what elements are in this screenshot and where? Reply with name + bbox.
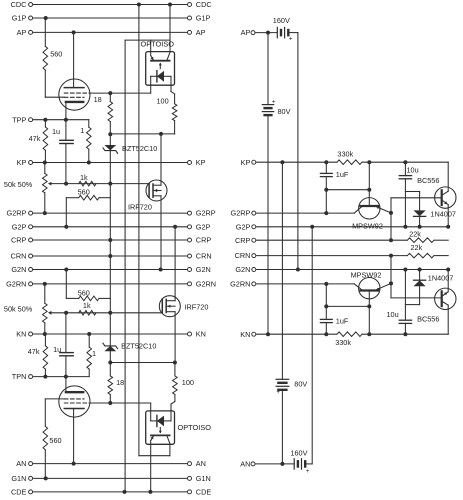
svg-text:OPTOISO: OPTOISO (178, 423, 212, 432)
svg-text:1: 1 (80, 126, 84, 135)
svg-text:G2RN: G2RN (6, 280, 26, 289)
svg-text:1: 1 (92, 349, 96, 358)
svg-text:+: + (272, 98, 276, 105)
svg-text:G1N: G1N (11, 474, 26, 483)
svg-text:KP: KP (196, 158, 206, 167)
svg-text:22k: 22k (409, 230, 421, 239)
svg-text:KP: KP (17, 158, 27, 167)
svg-text:80V: 80V (294, 380, 307, 389)
svg-text:KP: KP (241, 158, 251, 167)
svg-text:KN: KN (16, 330, 26, 339)
svg-text:+: + (276, 389, 280, 396)
svg-text:CRN: CRN (235, 251, 251, 260)
svg-text:+: + (306, 468, 310, 475)
svg-text:47k: 47k (29, 134, 41, 143)
svg-text:TPP: TPP (12, 115, 26, 124)
svg-text:AN: AN (240, 460, 250, 469)
svg-text:160V: 160V (273, 16, 290, 25)
svg-text:G2P: G2P (196, 222, 211, 231)
svg-text:330k: 330k (337, 149, 353, 158)
svg-text:G1P: G1P (12, 14, 27, 23)
svg-text:10u: 10u (407, 166, 419, 175)
svg-text:AN: AN (196, 459, 206, 468)
svg-text:160V: 160V (290, 449, 307, 458)
svg-text:1uF: 1uF (336, 170, 349, 179)
svg-text:BC556: BC556 (417, 176, 439, 185)
svg-text:50k 50%: 50k 50% (4, 180, 33, 189)
svg-text:G2RN: G2RN (196, 280, 216, 289)
svg-text:BC556: BC556 (417, 314, 439, 323)
svg-text:1k: 1k (83, 301, 91, 310)
svg-text:100: 100 (157, 96, 169, 105)
svg-text:1N4007: 1N4007 (428, 273, 454, 282)
svg-text:1uF: 1uF (336, 317, 349, 326)
svg-text:G2N: G2N (11, 265, 26, 274)
svg-text:CDC: CDC (196, 0, 212, 9)
svg-text:560: 560 (78, 289, 90, 298)
svg-text:G1P: G1P (196, 14, 211, 23)
svg-text:AN: AN (16, 459, 26, 468)
svg-text:BZT52C10: BZT52C10 (122, 144, 157, 153)
svg-text:G2P: G2P (12, 222, 27, 231)
svg-text:22k: 22k (411, 243, 423, 252)
svg-text:G2N: G2N (235, 265, 250, 274)
svg-text:560: 560 (49, 436, 61, 445)
svg-text:IRF720: IRF720 (128, 203, 152, 212)
svg-text:G2RP: G2RP (7, 209, 27, 218)
svg-text:KN: KN (240, 330, 250, 339)
svg-text:100: 100 (182, 378, 194, 387)
svg-text:G2P: G2P (236, 222, 251, 231)
svg-text:560: 560 (78, 188, 90, 197)
svg-text:G2RP: G2RP (231, 209, 251, 218)
svg-text:AP: AP (17, 28, 27, 37)
svg-text:CDC: CDC (11, 0, 27, 9)
svg-text:AP: AP (196, 28, 206, 37)
svg-text:CRP: CRP (235, 236, 251, 245)
svg-text:IRF720: IRF720 (185, 302, 209, 311)
svg-text:CRN: CRN (11, 252, 27, 261)
svg-text:560: 560 (50, 50, 62, 59)
svg-text:1N4007: 1N4007 (430, 210, 456, 219)
svg-text:10u: 10u (387, 310, 399, 319)
svg-text:50k 50%: 50k 50% (4, 305, 33, 314)
svg-text:MPSW92: MPSW92 (351, 271, 382, 280)
svg-text:KN: KN (196, 330, 206, 339)
svg-text:AP: AP (241, 28, 251, 37)
svg-text:1u: 1u (52, 127, 60, 136)
svg-text:CRP: CRP (196, 236, 212, 245)
svg-text:CDE: CDE (196, 488, 212, 497)
svg-text:80V: 80V (278, 107, 291, 116)
svg-text:18: 18 (94, 95, 102, 104)
svg-text:1k: 1k (80, 173, 88, 182)
svg-text:+: + (289, 36, 293, 43)
svg-text:CDE: CDE (11, 488, 27, 497)
svg-text:330k: 330k (335, 338, 351, 347)
svg-text:G2RN: G2RN (230, 280, 250, 289)
svg-text:18: 18 (116, 378, 124, 387)
svg-text:TPN: TPN (12, 372, 27, 381)
svg-text:G2N: G2N (196, 265, 211, 274)
svg-text:CRP: CRP (11, 236, 27, 245)
svg-text:MPSW92: MPSW92 (352, 221, 383, 230)
svg-text:1u: 1u (53, 345, 61, 354)
svg-text:CRN: CRN (196, 252, 212, 261)
svg-text:OPTOISO: OPTOISO (141, 39, 175, 48)
svg-text:47k: 47k (28, 347, 40, 356)
svg-text:G2RP: G2RP (196, 209, 216, 218)
svg-text:G1N: G1N (196, 474, 211, 483)
